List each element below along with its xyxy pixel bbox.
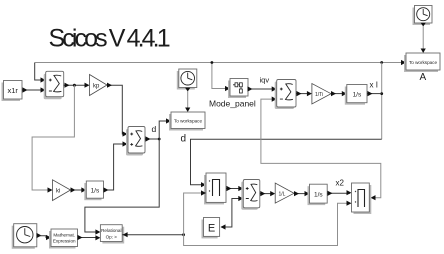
wire gain to integrator 1/s (lower right) bbox=[294, 191, 310, 196]
wire feedback xI top loop (node xI to SUM1, Mode_panel, workspace A) bbox=[35, 60, 406, 91]
sum block SUM1 bbox=[44, 71, 64, 99]
node d: wire SUM2 output with branches to workspace d and Relational bbox=[85, 118, 171, 234]
svg-text:Expression: Expression bbox=[53, 239, 76, 244]
wire node xI: integrator output bbox=[367, 91, 382, 96]
svg-text:d: d bbox=[152, 124, 157, 134]
wire node x2: integrator to PULSE2 input1 bbox=[327, 190, 351, 196]
gain block KP bbox=[90, 75, 108, 96]
wire SUM1 to gain KP with branch down to gain KI bbox=[32, 83, 89, 193]
wire x1r to SUM1 minus bbox=[22, 87, 46, 92]
wire SUM3 to gain 1/Ti bbox=[296, 91, 312, 96]
wire Relational output to PULSE1 input2 and PULSE2 input2 bbox=[122, 190, 351, 245]
svg-text:x I: x I bbox=[370, 81, 378, 90]
svg-text:iqv: iqv bbox=[260, 76, 270, 85]
label A bbox=[420, 72, 427, 83]
gain block 1/L bbox=[275, 183, 294, 203]
clock block CLOCK2 bbox=[413, 6, 433, 27]
svg-text:E: E bbox=[208, 223, 215, 235]
gain block 1/Ti bbox=[312, 84, 331, 105]
svg-text:Relational: Relational bbox=[101, 228, 121, 233]
sum block SUM2 bbox=[126, 127, 145, 156]
integrator block 1/s (lower left) bbox=[84, 181, 103, 200]
sum block SUM3 bbox=[275, 80, 296, 110]
wire E to SUM4 minus bbox=[221, 196, 244, 230]
svg-text:1/s: 1/s bbox=[91, 188, 100, 195]
label x2 bbox=[336, 179, 345, 188]
block Mathematical Expression bbox=[49, 229, 78, 249]
svg-text:1/L: 1/L bbox=[279, 192, 286, 198]
wire Mathematical Expression to Relational input2 bbox=[78, 235, 101, 241]
wire node iqv: Mode_panel to SUM3 plus bbox=[248, 86, 277, 91]
wire feedback pulse2 to SUM3 minus bbox=[261, 97, 381, 201]
block pulse PULSE1 bbox=[204, 173, 226, 204]
wire KI to integrator 1/s bbox=[71, 187, 87, 192]
wire CLOCK3 to Mathematical Expression bbox=[40, 235, 51, 240]
wire integrator to SUM2 input2 bbox=[104, 141, 128, 192]
svg-text:x2: x2 bbox=[336, 179, 345, 188]
label d (workspace variable) bbox=[181, 134, 187, 145]
wire PULSE1 to SUM4 plus bbox=[226, 186, 243, 191]
wire event CLOCK1 to workspace d bbox=[185, 91, 190, 112]
block To workspace d bbox=[169, 112, 205, 131]
svg-text:To workspace: To workspace bbox=[409, 60, 438, 65]
gain block KI bbox=[53, 180, 71, 201]
block To workspace A bbox=[404, 53, 440, 72]
source block E bbox=[202, 218, 220, 239]
block Relational Op bbox=[100, 225, 124, 244]
clock block CLOCK1 bbox=[177, 69, 197, 92]
svg-text:ki: ki bbox=[56, 189, 60, 195]
wire xI vertical riser and lower feedback to pulse1 bbox=[191, 63, 384, 188]
wire event CLOCK2 to workspace A bbox=[421, 26, 426, 53]
svg-text:Mathemat.: Mathemat. bbox=[53, 233, 75, 238]
svg-text:1/s: 1/s bbox=[314, 192, 323, 199]
block Mode_panel bbox=[228, 79, 248, 99]
svg-text:d: d bbox=[181, 134, 187, 145]
label x I bbox=[370, 81, 378, 90]
label Mode_panel bbox=[209, 99, 256, 109]
svg-text:Op: >: Op: > bbox=[106, 235, 118, 240]
svg-text:To workspace: To workspace bbox=[174, 119, 203, 124]
wire KP to SUM2 input1 bbox=[107, 83, 128, 137]
wire gain to integrator 1/s (upper right) bbox=[331, 91, 347, 96]
svg-text:x1r: x1r bbox=[7, 86, 18, 95]
integrator block 1/s (lower right) bbox=[308, 184, 328, 205]
wire SUM4 to gain 1/L bbox=[260, 191, 275, 196]
svg-text:Mode_panel: Mode_panel bbox=[209, 99, 256, 109]
integrator block 1/s (upper right) bbox=[345, 85, 367, 105]
svg-text:1/s: 1/s bbox=[353, 92, 362, 99]
source block x1r bbox=[2, 81, 23, 102]
svg-text:kp: kp bbox=[93, 84, 100, 90]
block pulse PULSE2 bbox=[352, 183, 372, 214]
title Scicos V 4.4.1 bbox=[49, 25, 170, 53]
svg-text:1/Ti: 1/Ti bbox=[315, 92, 323, 98]
clock block CLOCK3 bbox=[12, 224, 42, 249]
label d (link) bbox=[152, 124, 157, 134]
svg-text:Scicos V 4.4.1: Scicos V 4.4.1 bbox=[49, 25, 170, 53]
sum block SUM4 bbox=[241, 180, 259, 210]
svg-text:A: A bbox=[420, 72, 427, 83]
label iqv bbox=[260, 76, 270, 85]
